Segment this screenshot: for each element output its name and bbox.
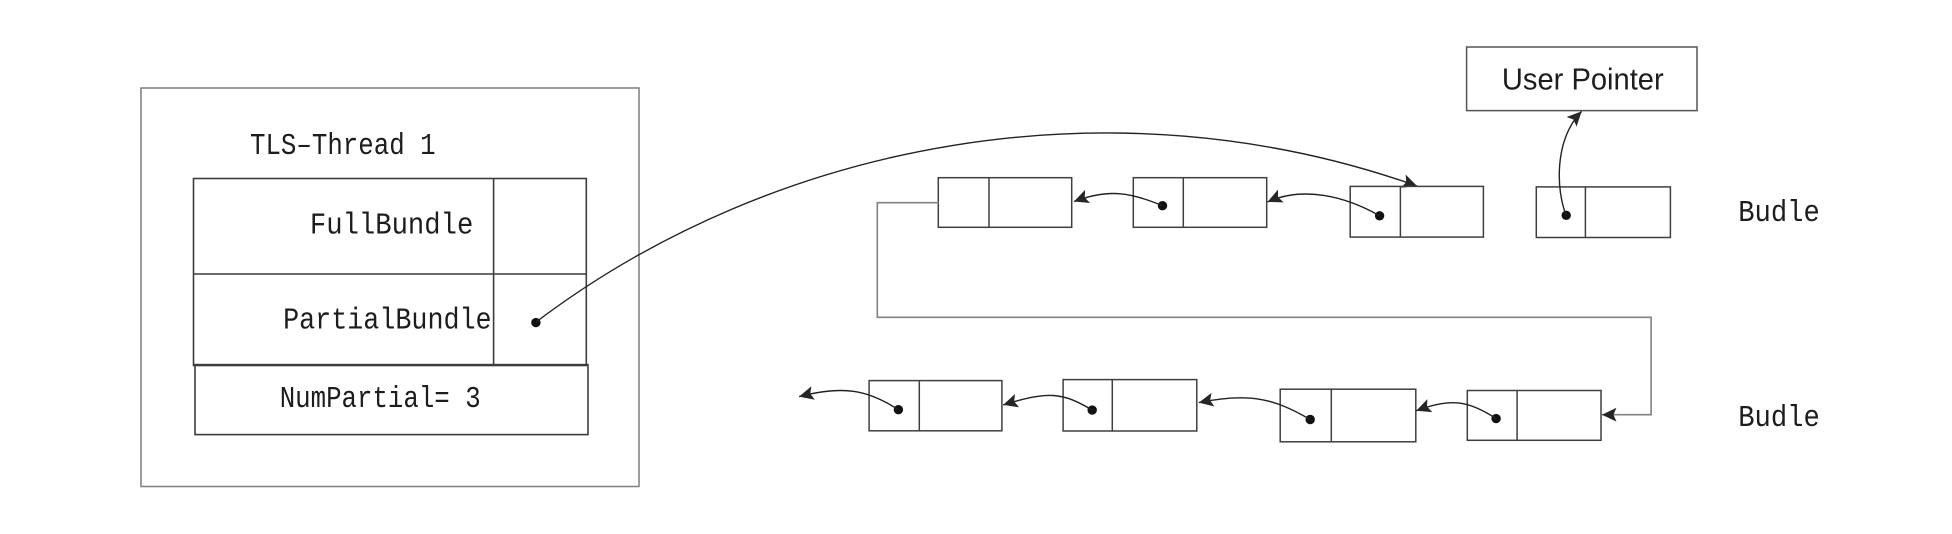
wire arrow top node 3 to node 2	[1268, 194, 1380, 216]
box top node 3	[1350, 186, 1483, 237]
column divider of pointer cells	[493, 179, 495, 366]
divider top node 2	[1182, 178, 1184, 228]
table FullBundle/PartialBundle rows	[194, 179, 587, 366]
node bottom node 4 dot	[1491, 414, 1500, 423]
svg-text:PartialBundle: PartialBundle	[283, 304, 492, 339]
node bottom node 1 dot	[894, 405, 903, 414]
wire arrow bottom node 4 to node 3	[1416, 403, 1496, 419]
node top node 4 dot	[1562, 211, 1571, 220]
box bottom node 2	[1063, 380, 1197, 431]
divider bottom node 2	[1111, 380, 1113, 431]
wire arrow bottom node 1 to left	[799, 390, 898, 409]
svg-text:TLS–Thread 1: TLS–Thread 1	[250, 129, 436, 164]
box NumPartial row	[195, 365, 588, 435]
outer box TLS-Thread 1 container	[141, 88, 639, 487]
divider top node 1	[988, 178, 990, 228]
wire arrow top node 2 to node 1	[1074, 193, 1163, 205]
node top node 2 dot	[1158, 201, 1167, 210]
divider bottom node 4	[1516, 391, 1518, 441]
svg-text:Budle: Budle	[1738, 196, 1820, 231]
wire arrow bottom node 2 to node 1	[1003, 395, 1092, 410]
wire routing line top node 1 to bottom node 4	[877, 203, 1651, 415]
node top node 3 dot	[1375, 211, 1384, 220]
divider bottom node 3	[1330, 389, 1332, 442]
svg-text:NumPartial= 3: NumPartial= 3	[280, 382, 481, 417]
divider bottom node 1	[918, 381, 920, 431]
box top node 1	[938, 178, 1071, 228]
box bottom node 3	[1280, 389, 1416, 442]
divider top node 4	[1584, 187, 1586, 238]
box bottom node 4	[1467, 391, 1601, 441]
wire long curved arrow PartialBundle to top node 3	[536, 133, 1417, 322]
row divider between FullBundle and PartialBundle	[194, 273, 587, 275]
divider top node 3	[1399, 186, 1401, 237]
wire arrow top node 4 to User Pointer	[1559, 111, 1581, 215]
box top node 2	[1133, 178, 1266, 228]
node bottom node 3 dot	[1306, 415, 1315, 424]
box User Pointer	[1467, 47, 1697, 111]
box bottom node 1	[869, 381, 1002, 431]
svg-text:User Pointer: User Pointer	[1502, 63, 1664, 97]
wire arrow bottom node 3 to node 2	[1199, 398, 1310, 420]
node bottom node 2 dot	[1088, 405, 1097, 414]
svg-text:Budle: Budle	[1738, 401, 1820, 436]
node PartialBundle pointer dot	[531, 318, 540, 327]
svg-text:FullBundle: FullBundle	[310, 208, 473, 243]
box top node 4	[1536, 187, 1670, 238]
